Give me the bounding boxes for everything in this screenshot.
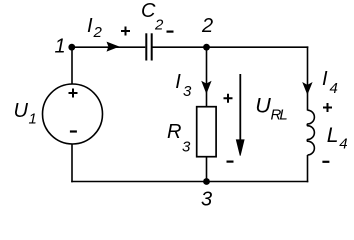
- wire: middle branch, resistor bottom down to node 3: [206, 157, 208, 182]
- svg-text:C: C: [141, 0, 156, 22]
- svg-text:I: I: [175, 71, 181, 93]
- inductor L4 coil: [307, 110, 314, 155]
- svg-text:L: L: [327, 124, 339, 147]
- svg-text:I: I: [322, 68, 328, 90]
- wire: top, capacitor right plate to top-right corner: [152, 46, 308, 48]
- minus mark right of capacitor: [167, 31, 174, 33]
- plus mark top of R3 branch: [224, 94, 233, 103]
- svg-text:4: 4: [339, 136, 347, 153]
- current arrow I2 on top wire: [107, 42, 118, 51]
- current arrow I3 on middle branch: [202, 82, 211, 93]
- svg-text:2: 2: [154, 17, 164, 34]
- wire: left branch, node 1 down to source top: [71, 47, 73, 84]
- svg-text:1: 1: [55, 36, 66, 58]
- svg-text:U: U: [14, 100, 29, 122]
- svg-text:R: R: [167, 121, 181, 143]
- wire: middle branch, node 2 down to resistor top: [206, 47, 208, 107]
- svg-text:2: 2: [93, 24, 103, 41]
- voltage arrow U_RL shaft: [239, 74, 241, 141]
- plus mark left of capacitor: [121, 27, 130, 36]
- wire: bottom, left corner to right corner: [71, 181, 308, 183]
- wire: top, node 1 to capacitor left plate: [72, 46, 145, 48]
- svg-text:3: 3: [182, 139, 191, 156]
- svg-text:4: 4: [330, 80, 338, 97]
- wire: right branch, corner down to inductor top: [307, 46, 309, 110]
- U1 plus terminal mark: [69, 89, 78, 98]
- capacitor C2 plates: [146, 33, 151, 60]
- minus mark bottom of L4: [322, 161, 329, 163]
- minus mark bottom of R3 branch: [227, 161, 234, 163]
- svg-text:U: U: [255, 93, 271, 117]
- node 2 junction dot: [203, 44, 210, 51]
- svg-text:3: 3: [201, 189, 212, 211]
- resistor R3 body: [197, 107, 216, 157]
- svg-text:3: 3: [183, 83, 192, 100]
- svg-text:1: 1: [29, 111, 37, 128]
- current arrow I4 on right branch: [303, 83, 312, 94]
- plus mark top of L4: [323, 103, 332, 112]
- node 1 junction dot: [68, 44, 75, 51]
- wire: left branch, source bottom down to bottom-left corner: [71, 144, 73, 182]
- voltage arrow U_RL head: [236, 140, 244, 156]
- U1 minus terminal mark: [70, 130, 77, 132]
- node 3 junction dot: [203, 178, 210, 185]
- svg-text:RL: RL: [271, 107, 288, 124]
- svg-text:2: 2: [201, 15, 213, 37]
- svg-text:I: I: [87, 15, 93, 37]
- voltage source U1 circle: [43, 84, 103, 144]
- wire: right branch, inductor bottom to bottom-right corner: [307, 155, 309, 182]
